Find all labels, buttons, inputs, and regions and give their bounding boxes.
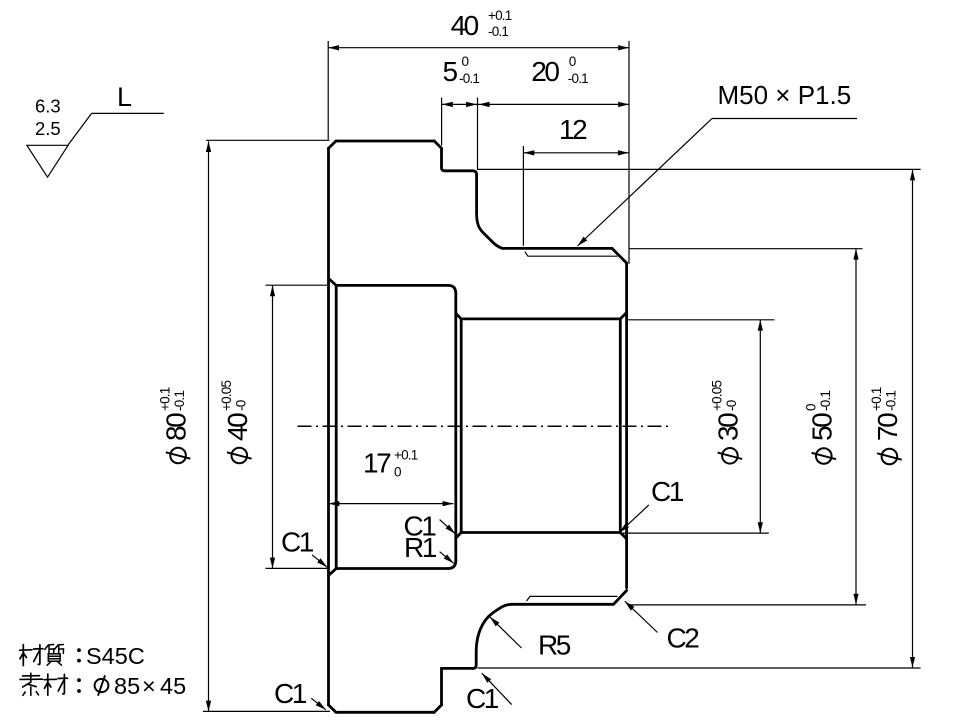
svg-text:C1: C1 xyxy=(281,527,314,558)
flange right side (bottom) xyxy=(440,668,443,705)
leader C1 bore step xyxy=(440,520,456,534)
svg-text:×: × xyxy=(142,673,156,699)
bore step chamfer C1 bottom xyxy=(456,533,461,539)
svg-text:-0.1: -0.1 xyxy=(459,71,479,86)
bore entrance chamfer C1 right-bottom xyxy=(620,533,626,539)
ext 40/20/12 right xyxy=(628,41,630,264)
arrows 20 xyxy=(479,102,490,107)
ext phi40 top xyxy=(266,284,330,286)
dim line 40 xyxy=(328,47,629,49)
svg-text:20: 20 xyxy=(531,56,559,87)
leader C1 right bore xyxy=(619,505,648,533)
dim line phi70 xyxy=(912,170,914,668)
label dia 70 xyxy=(882,449,898,465)
bottom face phi80 xyxy=(336,711,434,714)
kanji so xyxy=(20,673,43,695)
svg-text:5: 5 xyxy=(443,56,458,87)
ext phi30 bottom xyxy=(621,532,769,534)
svg-text:17: 17 xyxy=(363,448,391,479)
label dia 50 xyxy=(816,448,832,464)
arrows phi30 xyxy=(758,320,763,331)
dim line 17 xyxy=(329,503,454,505)
svg-text:80: 80 xyxy=(161,413,192,441)
thread crest line bottom xyxy=(512,603,614,606)
svg-text:2.5: 2.5 xyxy=(35,118,61,139)
surface finish tail xyxy=(68,113,92,144)
svg-text:0: 0 xyxy=(462,54,469,69)
ext 5/20 middle xyxy=(477,98,479,171)
bore entrance chamfer C1 right-top xyxy=(620,313,626,319)
phi symbol xyxy=(95,679,109,692)
bore entrance chamfer C1 left-bottom xyxy=(329,569,337,576)
ext 40 left xyxy=(327,41,329,140)
chamfer C1 bottom-left corner xyxy=(329,705,336,712)
dim line 5 and 20 xyxy=(442,103,629,105)
bore entrance chamfer C1 left-top xyxy=(329,278,337,285)
svg-text:-0.1: -0.1 xyxy=(883,391,898,411)
thread root line top (thin) xyxy=(525,252,618,257)
svg-text:L: L xyxy=(117,82,132,112)
svg-text:C1: C1 xyxy=(274,678,307,709)
phi40 bore top line xyxy=(336,284,448,287)
svg-text:-0.1: -0.1 xyxy=(568,71,588,86)
ext 12 left xyxy=(522,146,524,246)
svg-text:85: 85 xyxy=(114,673,140,699)
ext phi30 top xyxy=(628,319,775,321)
arrows 40 xyxy=(328,45,339,50)
svg-text:C2: C2 xyxy=(667,623,700,654)
right end face xyxy=(625,263,628,588)
dim line 12 xyxy=(524,152,629,154)
arrows phi40 xyxy=(270,285,275,296)
step face bottom xyxy=(442,667,474,670)
svg-text:R1: R1 xyxy=(404,532,437,563)
centerline xyxy=(298,425,670,427)
svg-text:0: 0 xyxy=(394,465,401,480)
ext phi80 top xyxy=(206,139,330,141)
ext phi70 bottom xyxy=(477,667,920,669)
svg-text:6.3: 6.3 xyxy=(35,96,61,117)
svg-text:M50 × P1.5: M50 × P1.5 xyxy=(718,80,852,110)
fullwidth colon xyxy=(77,648,81,652)
label dia 30 xyxy=(722,448,738,464)
dim line phi50 xyxy=(855,249,857,605)
thread crest line top xyxy=(503,247,612,250)
arrows phi80 xyxy=(206,141,211,152)
kanji zai2 xyxy=(44,674,67,695)
kanji zai xyxy=(20,645,43,666)
svg-text:-0: -0 xyxy=(233,400,248,411)
arrows phi50 xyxy=(853,249,858,260)
C2 chamfer bottom thread end xyxy=(614,591,627,605)
chamfer C1 top-right of flange xyxy=(434,141,441,148)
fullwidth colon 2 xyxy=(77,678,81,682)
leader C1 step corner xyxy=(482,673,512,704)
ext phi80 bottom xyxy=(203,710,330,712)
phi30 bore top line xyxy=(461,317,620,320)
svg-text:+0.1: +0.1 xyxy=(869,387,884,411)
arrows 17 xyxy=(329,501,340,506)
surface finish triangle xyxy=(27,145,68,177)
svg-text:30: 30 xyxy=(712,413,743,441)
ext phi40 bottom xyxy=(266,567,330,569)
phi40 bore bottom line xyxy=(336,567,448,570)
leader M50xP1.5 xyxy=(712,118,857,120)
leader C1 flange bottom-left xyxy=(311,698,326,710)
svg-text:0: 0 xyxy=(569,54,576,69)
leader R5 xyxy=(490,617,522,648)
ext 5 left xyxy=(441,98,443,146)
top face phi80 xyxy=(336,140,434,143)
svg-text:-0.1: -0.1 xyxy=(818,391,833,411)
neck curve into thread (top) xyxy=(477,213,503,248)
arrows 5 xyxy=(442,102,453,107)
svg-text:40: 40 xyxy=(451,10,479,41)
ext phi70 top xyxy=(477,168,920,170)
flange right side (top) + fillet into step xyxy=(442,148,477,213)
dim line phi80 xyxy=(208,141,210,711)
phi30 bore bottom line xyxy=(461,531,620,534)
ext phi50 bottom xyxy=(628,604,866,606)
part left end face xyxy=(327,148,330,705)
svg-text:-0.1: -0.1 xyxy=(172,391,187,411)
svg-text:+0.1: +0.1 xyxy=(158,387,173,411)
label dia 40 xyxy=(232,448,248,464)
svg-text:S45C: S45C xyxy=(86,643,145,669)
chamfer C1 top-left corner xyxy=(329,141,337,148)
svg-text:+0.05: +0.05 xyxy=(219,381,234,411)
svg-text:+0.05: +0.05 xyxy=(709,381,724,411)
leader C2 xyxy=(625,601,658,632)
bore step wall (full height annular face) xyxy=(454,293,457,560)
leader C1 left bore xyxy=(312,555,327,567)
svg-text:40: 40 xyxy=(222,413,253,441)
chamfer edge line at phi30 bore right xyxy=(619,319,622,533)
bore step chamfer C1 top xyxy=(456,313,461,319)
ext phi50 top xyxy=(630,248,863,250)
svg-text:50: 50 xyxy=(806,413,837,441)
svg-text:C1: C1 xyxy=(651,476,684,507)
svg-text:0: 0 xyxy=(803,404,818,411)
kanji shitsu xyxy=(45,645,64,666)
R5 fillet curve xyxy=(473,604,512,668)
chamfer C1 bottom-right of flange xyxy=(434,705,441,712)
dim line phi30 xyxy=(759,320,761,533)
svg-text:45: 45 xyxy=(160,673,186,699)
svg-text:-0.1: -0.1 xyxy=(488,24,508,39)
thread root line bottom (thin) xyxy=(527,596,618,601)
chamfer edge line at phi30 bore left xyxy=(460,319,463,533)
arrows 12 xyxy=(524,150,535,155)
arrows phi70 xyxy=(910,170,915,181)
svg-text:70: 70 xyxy=(872,413,903,441)
svg-text:+0.1: +0.1 xyxy=(488,8,512,23)
chamfer edge line at phi40 bore xyxy=(335,285,338,568)
fillet R1 bottom xyxy=(448,561,456,569)
svg-text:12: 12 xyxy=(559,114,587,145)
svg-text:+0.1: +0.1 xyxy=(394,448,418,463)
label dia 80 xyxy=(170,448,186,464)
thread end chamfer top xyxy=(612,248,627,263)
svg-text:C1: C1 xyxy=(466,683,499,714)
fillet R1 top xyxy=(448,285,456,293)
leader R1 xyxy=(440,552,454,564)
svg-text:R5: R5 xyxy=(538,630,571,661)
svg-text:-0: -0 xyxy=(724,400,739,411)
dim line phi40 xyxy=(272,285,274,568)
